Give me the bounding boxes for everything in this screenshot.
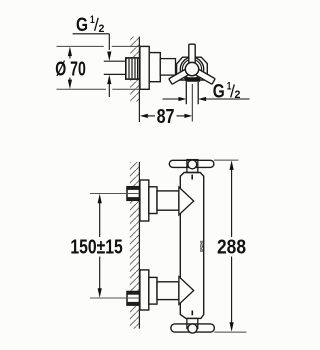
handle hub (185, 62, 198, 75)
wall hatch upper (130, 37, 139, 58)
outlet stub (185, 82, 187, 104)
top union (149, 187, 157, 214)
bottom pipe (157, 282, 179, 300)
thread fitting G1/2 (126, 58, 140, 79)
svg-text:GROHE: GROHE (199, 241, 204, 253)
dark collar (185, 77, 201, 82)
dimension Ø70 (55, 46, 140, 89)
bottom tick mark (191, 311, 193, 316)
label G1/2 top (73, 14, 112, 97)
dimension 150±15 (70, 194, 122, 298)
svg-text:1: 1 (227, 81, 232, 93)
svg-text:G: G (213, 81, 225, 102)
svg-text:Ø 70: Ø 70 (55, 58, 86, 80)
union body (149, 53, 160, 82)
top supply centerline (90, 193, 139, 195)
dimension 288 (214, 160, 247, 332)
bottom union (149, 277, 157, 304)
top pipe (157, 191, 179, 210)
top thread fitting (127, 187, 139, 201)
bottom hub block (187, 318, 198, 328)
svg-text:87: 87 (157, 106, 175, 128)
connecting tube (160, 59, 175, 76)
dimension 87 (140, 106, 192, 128)
svg-text:2: 2 (99, 23, 105, 35)
svg-text:2: 2 (235, 89, 241, 101)
bottom flange (140, 270, 149, 310)
wall line (138, 37, 140, 122)
bottom handle bar (171, 324, 214, 332)
bottom thread fitting (127, 292, 139, 306)
wall line (138, 162, 140, 329)
wall hatch lower (130, 79, 139, 102)
top handle bar (169, 160, 214, 167)
top hub circle (188, 160, 197, 169)
bottom cone (179, 277, 194, 305)
handle bezel ring (180, 57, 203, 80)
bottom hub circle (188, 324, 197, 333)
supply tube (104, 60, 127, 62)
escutcheon flange (140, 46, 149, 89)
bottom supply centerline (90, 297, 139, 299)
stub centerline (191, 84, 193, 122)
svg-text:150±15: 150±15 (70, 236, 122, 258)
svg-text:1: 1 (90, 14, 95, 26)
body tube (180, 173, 203, 319)
top cone (179, 187, 194, 215)
top flange (140, 180, 149, 221)
svg-text:G: G (76, 15, 88, 36)
svg-text:288: 288 (217, 236, 246, 258)
valve body (177, 57, 208, 80)
handle spokes (169, 44, 215, 84)
top hub block (187, 160, 198, 173)
label G1/2 right (163, 81, 250, 103)
wall hatch (3 segments around fittings) (130, 162, 140, 187)
top tick mark (191, 175, 193, 180)
